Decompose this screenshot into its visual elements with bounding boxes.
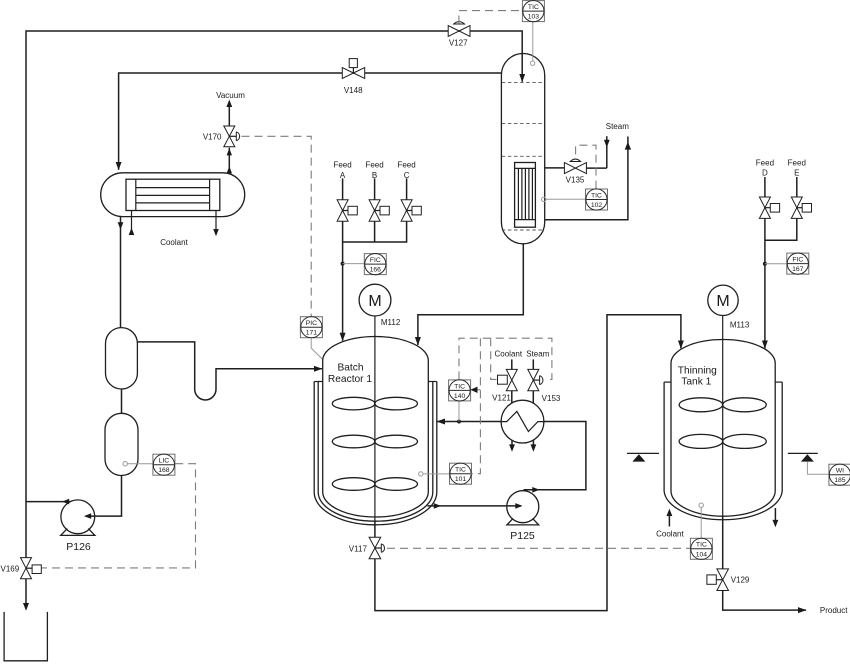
nozzle for TIC104 <box>699 503 703 507</box>
dashed signal V170 to PIC171 <box>242 136 312 316</box>
svg-text:TIC: TIC <box>591 192 602 199</box>
svg-text:Reactor 1: Reactor 1 <box>328 374 373 385</box>
pipe Feed C with header <box>343 178 407 242</box>
agitator blades row 2 <box>332 435 375 448</box>
condenser E (shell and tube heat exchanger) <box>101 173 245 217</box>
pipe steam return from reboiler <box>545 137 628 220</box>
svg-text:140: 140 <box>454 393 466 400</box>
svg-text:C: C <box>404 171 410 180</box>
svg-text:TIC: TIC <box>455 467 466 474</box>
motor M112 <box>359 284 401 327</box>
dashed branch to V121 actuator <box>491 338 498 379</box>
pipe drum1 to drum2 <box>121 389 123 413</box>
svg-text:Vacuum: Vacuum <box>216 91 245 100</box>
instrument FIC 166 <box>364 254 386 275</box>
svg-text:Coolant: Coolant <box>495 350 523 359</box>
svg-text:Coolant: Coolant <box>160 238 188 247</box>
pipe V169 to waste tank <box>25 579 27 603</box>
pipe Feed A down to reactor <box>342 178 344 340</box>
svg-text:A: A <box>340 171 346 180</box>
instrument PIC 171 <box>300 317 322 338</box>
svg-text:V129: V129 <box>731 576 750 585</box>
pipe reactor bottom outlet to V117 <box>374 521 376 537</box>
svg-text:V153: V153 <box>542 394 561 403</box>
pipe drum2 bottom to pump P126 <box>86 476 122 517</box>
junction node on feed D line <box>763 262 767 266</box>
pipe V170 to vacuum arrow <box>228 101 230 126</box>
pipe P126 discharge to reflux riser <box>26 501 71 503</box>
svg-text:V170: V170 <box>203 132 222 141</box>
agitator blades row 1 <box>679 398 723 412</box>
nozzle for TIC101 <box>419 472 423 476</box>
pipe vacuum branch above condenser <box>228 148 230 173</box>
valve V121 (coolant, square actuator left) <box>492 369 517 402</box>
svg-text:V117: V117 <box>349 544 368 553</box>
internal reboiler tube bundle <box>515 163 536 228</box>
agitator shaft M112 <box>374 316 376 521</box>
dashed line down to TIC101 with arrow into TIC140 <box>470 338 480 474</box>
pipe HX return into reactor jacket <box>437 421 501 423</box>
pipe condenser outlet down to reflux drum 1 <box>120 217 122 328</box>
svg-text:M113: M113 <box>730 321 750 330</box>
support right with WI tap <box>788 453 829 474</box>
svg-text:TIC: TIC <box>696 542 707 549</box>
nozzle for LIC168 <box>123 462 127 466</box>
junction node on feed line <box>341 262 345 266</box>
svg-text:M: M <box>368 293 381 310</box>
svg-text:FIC: FIC <box>792 257 803 264</box>
grey tap PIC171 to reactor dome <box>311 338 325 362</box>
svg-text:166: 166 <box>370 267 382 274</box>
coolant outlet from tank jacket <box>774 508 776 520</box>
reflux drum 2 (vertical capsule) <box>105 413 138 475</box>
dashed signal V127 to TIC103 <box>459 11 523 24</box>
svg-text:Product: Product <box>820 606 848 615</box>
svg-text:Coolant: Coolant <box>656 529 684 538</box>
svg-text:E: E <box>794 169 799 178</box>
instrument TIC 103 <box>522 0 544 21</box>
nozzle for TIC103 <box>530 61 534 65</box>
distillation column C1 <box>501 54 544 244</box>
dashed signal V117 to TIC104 <box>387 547 690 549</box>
pipe reactor jacket outlet to P125 suction <box>428 505 522 507</box>
pipe HX outlet right and down to P125 discharge <box>524 422 586 490</box>
pipe Feed B <box>374 178 376 242</box>
instrument FIC 167 <box>787 253 809 274</box>
dashed signal TIC102 to V135 <box>576 145 596 188</box>
svg-text:M: M <box>716 293 729 310</box>
svg-text:Feed: Feed <box>756 158 774 167</box>
instrument TIC 102 <box>586 189 608 210</box>
support left <box>627 453 659 461</box>
svg-text:V135: V135 <box>566 175 585 184</box>
waste tank (open top) <box>4 612 47 661</box>
coolant inlet to tank jacket <box>668 514 670 527</box>
heat exchanger HX (circle with zigzag) <box>501 400 544 443</box>
pipe steam stub into HX <box>532 359 534 369</box>
svg-text:103: 103 <box>528 14 540 21</box>
svg-text:FIC: FIC <box>370 257 381 264</box>
pump P125 <box>507 491 539 542</box>
valve V169 (drain control valve, vertical) <box>1 558 42 579</box>
svg-text:P126: P126 <box>66 541 91 553</box>
valve V153 (steam, diaphragm actuator right) <box>528 369 561 403</box>
valve on Feed D <box>759 197 779 218</box>
coolant inlet stub left <box>131 211 133 236</box>
svg-text:TIC: TIC <box>528 4 539 11</box>
svg-text:WI: WI <box>836 468 844 475</box>
pump P126 <box>61 500 95 553</box>
reflux drum 1 (vertical capsule) <box>106 328 138 389</box>
pipe drum1 side outlet with U seal loop to reactor <box>137 342 322 400</box>
svg-text:Steam: Steam <box>606 122 629 131</box>
pipe steam supply to V135 <box>606 136 608 168</box>
instrument TIC 104 <box>690 538 712 559</box>
valve V117 (bottom outlet control valve) <box>349 537 385 559</box>
instrument TIC 101 <box>450 463 472 484</box>
tray dashed lines <box>502 82 545 84</box>
valve V148 (hand valve on overhead line) <box>342 59 364 96</box>
nozzle for TIC102 <box>542 197 546 201</box>
dashed signal TIC140 up and over to V153 <box>459 338 552 379</box>
svg-text:LIC: LIC <box>159 458 170 465</box>
pipe coolant stub into HX <box>511 359 513 369</box>
svg-text:B: B <box>372 171 377 180</box>
valve V127 (control valve on reflux line) <box>448 22 470 48</box>
valve on Feed A <box>337 200 357 221</box>
svg-text:171: 171 <box>306 330 318 337</box>
arrow up to V170 <box>227 148 232 155</box>
motor M113 <box>708 285 750 330</box>
svg-text:V169: V169 <box>1 564 20 573</box>
arrow up at condenser top <box>227 166 232 173</box>
vessel Batch Reactor 1 <box>314 337 437 525</box>
svg-text:102: 102 <box>591 202 603 209</box>
junction node TIC140 tap <box>457 420 461 424</box>
svg-text:Steam: Steam <box>526 350 549 359</box>
valve V170 (control valve, vertical) <box>203 126 240 147</box>
svg-text:P125: P125 <box>510 530 535 542</box>
svg-text:101: 101 <box>455 476 467 483</box>
svg-text:V127: V127 <box>449 38 468 47</box>
agitator blades row 1 <box>332 397 375 410</box>
valve on Feed E <box>791 197 811 218</box>
svg-text:PIC: PIC <box>306 320 317 327</box>
instrument TIC 140 <box>449 380 471 401</box>
svg-text:Thinning: Thinning <box>678 365 717 376</box>
valve V129 (product valve, square actuator left) <box>707 569 750 591</box>
dashed signal LIC168 to V169 <box>42 464 196 568</box>
agitator blades row 2 <box>679 434 723 448</box>
svg-text:168: 168 <box>158 467 170 474</box>
pipe Feed D down to tank <box>764 177 766 348</box>
pipe condenser overhead line from column across top <box>119 73 502 170</box>
svg-text:TIC: TIC <box>454 383 465 390</box>
valve on Feed C <box>401 200 421 221</box>
svg-text:M112: M112 <box>381 318 401 327</box>
valve V135 (steam control valve) <box>564 159 586 184</box>
svg-text:V148: V148 <box>344 86 363 95</box>
svg-text:D: D <box>762 169 768 178</box>
HX drain stubs with arrows <box>511 440 513 445</box>
pipe column bottoms to reactor <box>418 244 523 345</box>
instrument WI 185 <box>829 464 850 485</box>
agitator shaft M113 <box>722 316 724 517</box>
svg-text:Feed: Feed <box>365 161 383 170</box>
pipe product line <box>723 591 806 611</box>
pipe tank bottom outlet to V129 <box>722 516 724 569</box>
pipe main reflux line: P126 discharge up left side, across top to column <box>26 31 522 558</box>
vessel Thinning Tank 1 <box>664 340 782 520</box>
svg-text:Tank 1: Tank 1 <box>681 377 711 388</box>
coolant outlet stub right <box>215 211 217 230</box>
svg-text:Batch: Batch <box>337 363 363 374</box>
svg-text:104: 104 <box>696 551 708 558</box>
svg-text:V121: V121 <box>492 393 511 402</box>
pipe transfer line V117 to Thinning Tank <box>375 315 681 611</box>
svg-text:167: 167 <box>792 266 804 273</box>
svg-text:Feed: Feed <box>397 161 415 170</box>
agitator blades row 3 <box>332 478 375 491</box>
svg-text:Feed: Feed <box>788 158 806 167</box>
instrument LIC 168 <box>153 454 175 475</box>
valve on Feed B <box>369 200 389 221</box>
pipe Feed E joining Feed D <box>765 177 797 240</box>
svg-text:185: 185 <box>834 477 846 484</box>
svg-text:Feed: Feed <box>333 161 351 170</box>
